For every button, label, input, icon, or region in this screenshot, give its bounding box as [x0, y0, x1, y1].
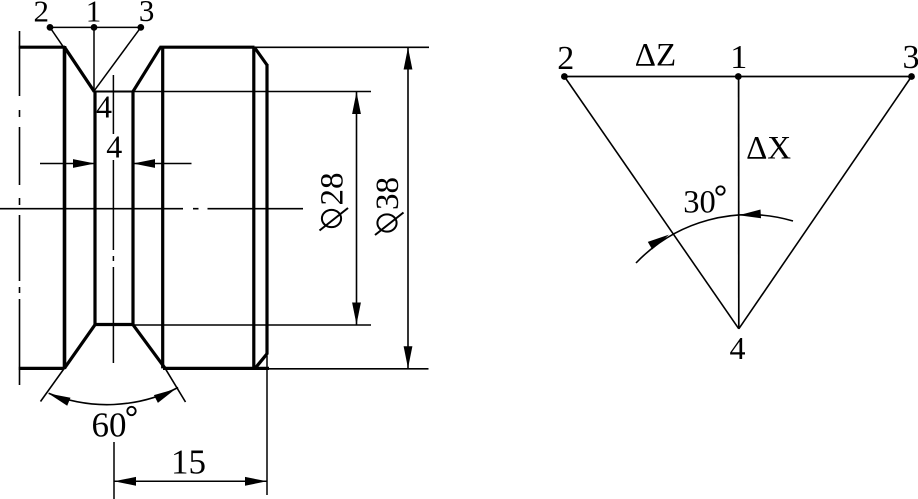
dim 15 arrow left	[114, 477, 136, 486]
svg-text:2: 2	[557, 40, 574, 77]
node 1 dot	[91, 24, 98, 31]
svg-text:28: 28	[315, 173, 351, 206]
dim 4 line left	[40, 163, 95, 165]
tool path line 2-3	[50, 26, 141, 28]
svg-text:30: 30	[683, 185, 716, 221]
svg-text:4: 4	[730, 330, 746, 366]
60 degree arrow right	[154, 389, 176, 403]
groove right flank bottom	[133, 324, 166, 368]
groove left flank top	[64, 47, 94, 92]
tool path line 2-4	[50, 27, 94, 91]
phi38 top extension line	[255, 46, 430, 48]
left end dash-dot line	[19, 31, 21, 385]
30 degree arrow at vertical	[739, 210, 761, 219]
phi38 arrow top	[404, 48, 413, 70]
groove right flank top	[133, 47, 161, 92]
node 2 dot (right diagram)	[561, 73, 568, 80]
phi38 arrow bottom	[404, 346, 413, 368]
30 degree dimension arc	[636, 215, 793, 263]
bottom right chamfer	[256, 354, 268, 368]
groove left wall	[93, 92, 96, 325]
path line 2-4 (right diagram)	[564, 77, 738, 329]
dim 4 arrow left	[73, 159, 95, 168]
node 3 dot	[137, 24, 144, 31]
svg-text:4: 4	[96, 89, 112, 125]
svg-text:1: 1	[86, 0, 102, 29]
bottom surface left segment	[19, 367, 65, 370]
svg-text:38: 38	[370, 177, 406, 210]
tool path line 1-4	[93, 27, 95, 91]
top surface left segment	[19, 46, 65, 49]
svg-text:ΔZ: ΔZ	[635, 38, 676, 74]
phi38 bottom extension line	[266, 368, 429, 370]
phi28 arrow bottom	[352, 303, 361, 325]
right end face	[265, 64, 268, 355]
groove right wall	[131, 92, 134, 325]
path line 2-3 (right diagram)	[564, 76, 911, 78]
svg-text:60: 60	[92, 406, 127, 445]
path line 1-4 (right diagram)	[738, 77, 740, 329]
svg-text:3: 3	[139, 0, 155, 28]
path line 3-4 (right diagram)	[739, 77, 912, 329]
right silhouette at groove flank	[161, 47, 164, 368]
svg-text:15: 15	[171, 443, 206, 482]
top right chamfer	[254, 47, 267, 65]
tool path line 3-4	[94, 27, 141, 91]
svg-text:2: 2	[34, 0, 50, 28]
60 degree dimension arc	[49, 388, 179, 405]
groove centerline	[112, 75, 114, 363]
dim 15 extension left	[113, 442, 115, 499]
phi28 dimension line	[356, 92, 358, 325]
dim 4 line right	[133, 163, 192, 165]
dim 4 arrow right	[133, 159, 155, 168]
horizontal centerline	[0, 208, 303, 210]
groove left flank bottom	[64, 324, 95, 368]
groove bottom edge bottom	[95, 323, 133, 326]
left face	[63, 46, 67, 369]
top surface right segment	[160, 46, 255, 49]
chamfer silhouette line	[252, 47, 255, 368]
groove right flank bottom extension	[165, 368, 185, 402]
node 1 dot (right diagram)	[735, 73, 742, 80]
dim 15 extension right	[266, 356, 268, 495]
phi28 arrow top	[352, 92, 361, 114]
bottom surface right segment	[163, 367, 269, 370]
dim 15 line	[114, 480, 267, 482]
dim 15 arrow right	[245, 477, 267, 486]
30 degree arrow at line 2-4	[648, 235, 669, 250]
svg-text:3: 3	[903, 39, 918, 76]
node 2 dot	[47, 24, 54, 31]
groove bottom edge top	[94, 91, 133, 93]
phi28 top extension line	[133, 91, 371, 93]
svg-text:1: 1	[730, 39, 747, 76]
phi28 bottom extension line	[133, 324, 371, 326]
phi38 dimension line	[407, 48, 409, 369]
svg-text:ΔX: ΔX	[746, 131, 791, 167]
svg-text:4: 4	[106, 129, 122, 165]
60 degree arrow left	[49, 394, 71, 406]
groove left flank bottom extension	[41, 368, 65, 402]
node 3 dot (right diagram)	[908, 73, 915, 80]
